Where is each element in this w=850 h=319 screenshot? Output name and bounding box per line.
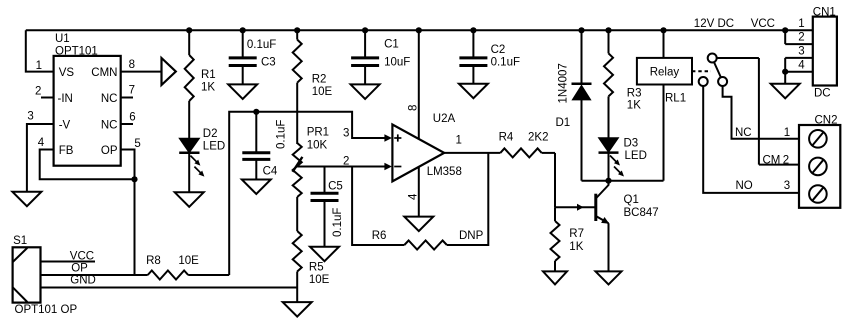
svg-text:0.1uF: 0.1uF	[332, 208, 344, 237]
svg-text:D2: D2	[203, 128, 218, 140]
svg-text:10uF: 10uF	[384, 57, 410, 69]
svg-text:R6: R6	[372, 230, 387, 242]
svg-text:0.1uF: 0.1uF	[276, 120, 288, 149]
svg-text:OP: OP	[71, 262, 88, 274]
svg-text:3: 3	[784, 180, 790, 192]
svg-text:RL1: RL1	[665, 93, 686, 105]
svg-text:NC: NC	[101, 93, 118, 105]
svg-text:R4: R4	[499, 132, 514, 144]
svg-text:OPT101: OPT101	[55, 46, 98, 58]
svg-text:OPT101 OP: OPT101 OP	[15, 304, 78, 316]
svg-text:R2: R2	[312, 74, 327, 86]
svg-text:FB: FB	[59, 145, 74, 157]
svg-text:2: 2	[783, 155, 789, 167]
svg-text:C3: C3	[261, 57, 276, 69]
svg-text:1K: 1K	[569, 241, 583, 253]
svg-text:CN2: CN2	[815, 114, 838, 126]
svg-text:1: 1	[456, 135, 462, 147]
svg-text:PR1: PR1	[307, 127, 329, 139]
svg-text:1K: 1K	[201, 82, 215, 94]
svg-text:8: 8	[408, 105, 420, 111]
svg-text:LED: LED	[625, 150, 647, 162]
svg-text:R3: R3	[627, 88, 642, 100]
svg-text:2K2: 2K2	[528, 132, 548, 144]
svg-text:C1: C1	[384, 39, 399, 51]
svg-text:NO: NO	[736, 180, 753, 192]
svg-text:GND: GND	[70, 275, 96, 287]
svg-text:C5: C5	[328, 181, 343, 193]
svg-text:10E: 10E	[312, 86, 333, 98]
svg-text:R5: R5	[309, 262, 324, 274]
svg-text:10E: 10E	[178, 255, 199, 267]
svg-text:12V DC: 12V DC	[694, 18, 734, 30]
svg-text:BC847: BC847	[624, 207, 659, 219]
svg-text:U2A: U2A	[433, 113, 456, 125]
svg-text:1N4007: 1N4007	[558, 63, 570, 103]
svg-text:R8: R8	[146, 255, 161, 267]
svg-text:C4: C4	[263, 166, 278, 178]
svg-text:0.1uF: 0.1uF	[247, 39, 276, 51]
svg-text:R1: R1	[201, 69, 216, 81]
svg-text:4: 4	[408, 193, 420, 200]
svg-text:2: 2	[35, 86, 41, 98]
svg-text:VCC: VCC	[70, 251, 94, 263]
svg-text:DC: DC	[814, 88, 831, 100]
svg-text:7: 7	[129, 85, 135, 97]
svg-text:2: 2	[343, 155, 349, 167]
svg-text:1: 1	[784, 127, 790, 139]
svg-text:-IN: -IN	[58, 93, 73, 105]
svg-text:NC: NC	[735, 127, 752, 139]
svg-text:C2: C2	[491, 44, 506, 56]
svg-text:8: 8	[129, 59, 135, 71]
svg-text:1: 1	[798, 18, 804, 30]
svg-text:LM358: LM358	[427, 166, 462, 178]
svg-text:VS: VS	[59, 67, 75, 79]
svg-text:D1: D1	[556, 117, 571, 129]
svg-text:4: 4	[798, 59, 805, 71]
svg-text:Q1: Q1	[624, 194, 639, 206]
svg-text:OP: OP	[101, 145, 118, 157]
svg-text:3: 3	[27, 111, 33, 123]
svg-text:LED: LED	[203, 141, 225, 153]
svg-text:10K: 10K	[307, 140, 328, 152]
svg-text:VCC: VCC	[751, 18, 775, 30]
svg-text:Relay: Relay	[650, 67, 680, 79]
svg-text:6: 6	[129, 112, 135, 124]
svg-text:CN1: CN1	[813, 6, 836, 18]
svg-text:4: 4	[38, 137, 45, 149]
svg-text:1K: 1K	[627, 100, 641, 112]
svg-text:10E: 10E	[309, 274, 330, 286]
svg-text:3: 3	[343, 127, 349, 139]
svg-text:R7: R7	[569, 228, 584, 240]
svg-text:0.1uF: 0.1uF	[491, 57, 520, 69]
svg-text:2: 2	[798, 32, 804, 44]
svg-text:CM: CM	[763, 155, 781, 167]
svg-text:D3: D3	[624, 138, 639, 150]
svg-text:3: 3	[798, 46, 804, 58]
svg-text:U1: U1	[55, 33, 70, 45]
svg-text:CMN: CMN	[91, 67, 117, 79]
svg-text:1: 1	[36, 60, 42, 72]
svg-text:-V: -V	[59, 120, 71, 132]
svg-text:DNP: DNP	[459, 230, 484, 242]
svg-text:S1: S1	[13, 235, 27, 247]
svg-text:NC: NC	[101, 120, 118, 132]
svg-text:5: 5	[134, 138, 140, 150]
